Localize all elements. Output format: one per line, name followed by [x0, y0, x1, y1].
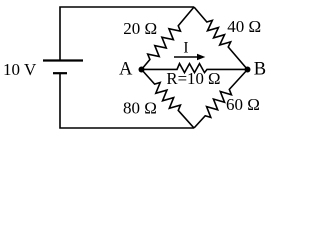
node B junction dot	[245, 67, 251, 73]
svg-text:B: B	[254, 60, 266, 80]
svg-text:I: I	[183, 40, 188, 57]
resistor 20ohm (node A to top node)	[142, 7, 195, 70]
svg-text:A: A	[119, 60, 133, 80]
resistor 60ohm (bottom node to node B)	[194, 70, 248, 129]
wire bottom (battery - down and right to bottom node)	[60, 73, 194, 128]
svg-text:20 Ω: 20 Ω	[123, 19, 157, 38]
svg-text:40 Ω: 40 Ω	[227, 17, 261, 36]
resistor 40ohm (top node to node B)	[194, 7, 248, 70]
resistor 80ohm (node A to bottom node)	[142, 70, 195, 129]
svg-text:R=10 Ω: R=10 Ω	[166, 69, 220, 88]
svg-text:60 Ω: 60 Ω	[226, 95, 260, 114]
svg-text:80 Ω: 80 Ω	[123, 98, 157, 117]
battery V1 short plate (-)	[53, 72, 67, 74]
resistor R=10ohm (bridge between node A and node B)	[142, 64, 248, 73]
wire top (battery + up and right to top node)	[60, 7, 194, 61]
node A junction dot	[139, 67, 145, 73]
svg-text:10 V: 10 V	[3, 60, 37, 79]
battery V1 long plate (+)	[43, 59, 83, 61]
current arrow I	[174, 56, 199, 58]
